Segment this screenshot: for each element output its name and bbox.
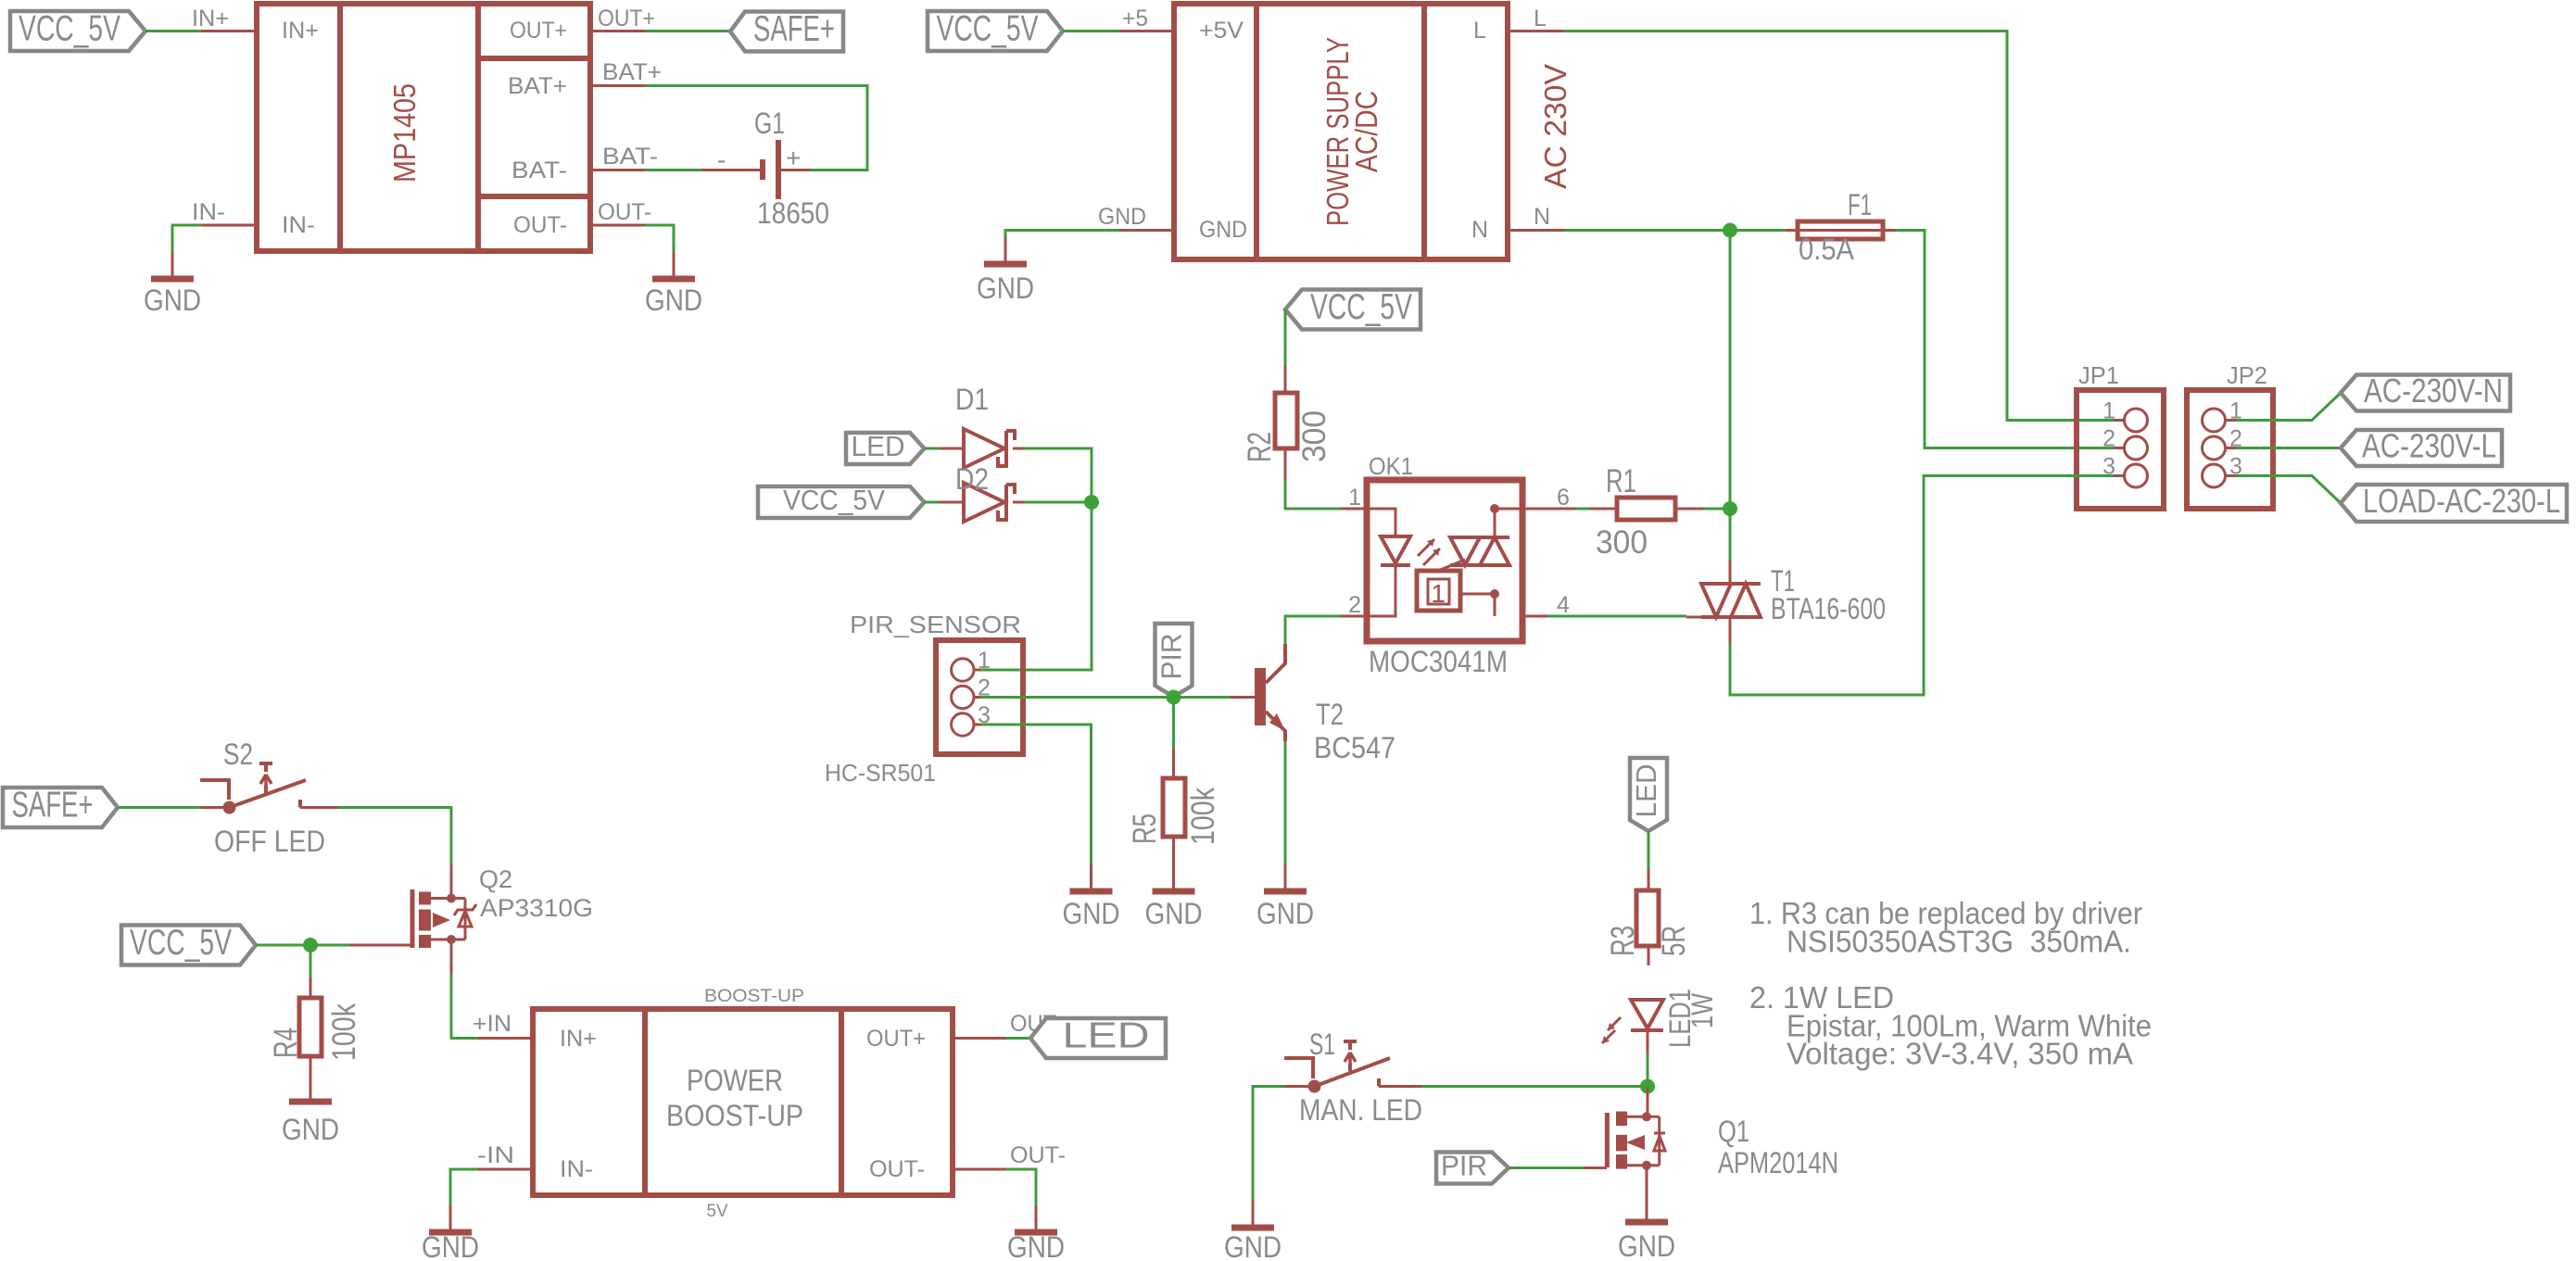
wire junction down to T1 bbox=[1729, 509, 1732, 560]
svg-text:S1: S1 bbox=[1309, 1028, 1335, 1061]
transistor T2 BC547 npn bbox=[1230, 644, 1395, 764]
resistor R4 100k bbox=[268, 978, 362, 1094]
pin IN+ of boost module bbox=[473, 1011, 597, 1052]
svg-text:LED: LED bbox=[1063, 1016, 1150, 1056]
svg-text:2: 2 bbox=[1348, 592, 1361, 618]
svg-text:-IN: -IN bbox=[477, 1142, 514, 1168]
wire PIR_SENSOR pin 2 to PIR node bbox=[980, 696, 1174, 699]
svg-text:AP3310G: AP3310G bbox=[480, 894, 593, 922]
mosfet Q2 AP3310G p-channel bbox=[412, 864, 593, 975]
net flag VCC_5V at Q2 gate bbox=[121, 923, 256, 965]
svg-text:GND: GND bbox=[1098, 204, 1146, 230]
svg-text:-: - bbox=[717, 145, 726, 174]
wire fuse F1 to JP1 pin 2 bbox=[1896, 231, 2114, 448]
ground GND at T2 emitter bbox=[1256, 864, 1314, 930]
svg-text:GND: GND bbox=[1199, 217, 1247, 243]
pin 1 of JP1 bbox=[2102, 398, 2147, 433]
wire VCC_5V flag to junction bbox=[256, 944, 310, 947]
net flag LOAD-AC-230-L bbox=[2341, 482, 2567, 522]
schottky diode D2 bbox=[940, 462, 1024, 522]
wire R1 to junction at triac node bbox=[1703, 508, 1730, 511]
ground GND under R5 bbox=[1145, 864, 1203, 930]
pin 2 of JP1 bbox=[2102, 426, 2147, 460]
wire LED flag to D1 anode bbox=[925, 448, 941, 450]
junction node D1/D2 bbox=[1084, 495, 1099, 510]
switch S2 OFF LED bbox=[200, 738, 339, 858]
svg-text:300: 300 bbox=[1296, 410, 1332, 462]
svg-text:MOC3041M: MOC3041M bbox=[1369, 645, 1508, 678]
svg-text:L: L bbox=[1473, 18, 1486, 44]
fuse F1 0.5A bbox=[1786, 188, 1896, 266]
wire JP2 pin 3 to LOAD-AC-230-L flag bbox=[2236, 476, 2341, 504]
ground GND at Q1 source bbox=[1618, 1195, 1675, 1261]
note text 2 bbox=[1749, 980, 2152, 1071]
svg-text:JP2: JP2 bbox=[2227, 361, 2267, 389]
supply flag VCC_5V above R2 bbox=[1285, 287, 1421, 330]
wire S1 left to ground bbox=[1253, 1087, 1283, 1221]
svg-text:LED: LED bbox=[852, 430, 905, 462]
pin IN- of MP1405 bbox=[192, 199, 315, 238]
svg-text:OUT+: OUT+ bbox=[866, 1026, 926, 1052]
wire OK1 pin 6 to R1 bbox=[1576, 508, 1590, 511]
svg-text:GND: GND bbox=[977, 271, 1034, 305]
svg-text:HC-SR501: HC-SR501 bbox=[825, 759, 936, 787]
net flag LED above R3 bbox=[1630, 758, 1667, 831]
ground GND at S1 bbox=[1224, 1201, 1282, 1261]
wire VCC_5V flag to +5V pin bbox=[1063, 30, 1119, 32]
ground GND at power supply bbox=[977, 237, 1034, 305]
wire boost IN- to ground bbox=[450, 1169, 478, 1225]
svg-text:SAFE+: SAFE+ bbox=[12, 786, 94, 826]
svg-text:OUT-: OUT- bbox=[869, 1156, 925, 1182]
wire junction to Q2 gate bbox=[310, 944, 349, 947]
svg-text:BOOST-UP: BOOST-UP bbox=[666, 1099, 803, 1132]
svg-text:GND: GND bbox=[1618, 1229, 1675, 1261]
svg-text:OUT+: OUT+ bbox=[510, 18, 567, 44]
svg-text:OUT-: OUT- bbox=[513, 212, 567, 238]
svg-text:GND: GND bbox=[1063, 897, 1120, 930]
wire D2 cathode to junction bbox=[1024, 501, 1092, 504]
junction node R1 / T1 MT2 bbox=[1723, 501, 1737, 516]
wire T2 collector to OK1 pin 2 bbox=[1285, 616, 1341, 644]
svg-text:BAT+: BAT+ bbox=[602, 59, 662, 85]
svg-text:GND: GND bbox=[1224, 1230, 1282, 1261]
wire LED flag to R3 bbox=[1648, 831, 1650, 869]
svg-text:IN-: IN- bbox=[192, 199, 225, 225]
svg-text:R4: R4 bbox=[268, 1028, 304, 1058]
pin OUT+ of MP1405 bbox=[510, 6, 655, 44]
wire S1 to junction under LED1 bbox=[1422, 1085, 1648, 1088]
pin BAT+ of MP1405 bbox=[508, 59, 662, 99]
wire L pin to JP1 pin 1 bbox=[1564, 32, 2114, 421]
svg-text:R3: R3 bbox=[1605, 926, 1641, 956]
ground GND at boost IN- bbox=[422, 1205, 479, 1261]
wire IN- to ground bbox=[172, 225, 201, 271]
svg-text:Q2: Q2 bbox=[479, 865, 512, 893]
svg-text:+5: +5 bbox=[1122, 6, 1148, 32]
svg-text:1: 1 bbox=[1348, 485, 1361, 511]
wire junction down to R1 node bbox=[1729, 231, 1732, 510]
svg-text:PIR_SENSOR: PIR_SENSOR bbox=[850, 611, 1021, 638]
svg-text:5V: 5V bbox=[707, 1202, 728, 1221]
wire R2 to OK1 pin 1 bbox=[1285, 480, 1341, 509]
svg-text:IN+: IN+ bbox=[192, 6, 229, 32]
led LED1 1W bbox=[1602, 989, 1719, 1053]
svg-text:BTA16-600: BTA16-600 bbox=[1771, 592, 1886, 625]
svg-text:AC-230V-N: AC-230V-N bbox=[2364, 372, 2503, 410]
wire LED1 cathode to junction bbox=[1647, 1053, 1649, 1086]
svg-text:VCC_5V: VCC_5V bbox=[783, 484, 885, 516]
svg-text:0.5A: 0.5A bbox=[1799, 233, 1855, 266]
note text 1 bbox=[1749, 896, 2142, 959]
wire PIR flag to Q1 gate bbox=[1509, 1166, 1585, 1169]
svg-text:6: 6 bbox=[1557, 485, 1570, 511]
supply flag VCC_5V top-left bbox=[10, 9, 145, 52]
junction node N at fuse input bbox=[1723, 223, 1737, 238]
wire PIR node to T2 base bbox=[1174, 696, 1231, 699]
pin 1 of PIR_SENSOR bbox=[952, 648, 991, 681]
wire BAT+ to battery G1 plus terminal bbox=[645, 86, 867, 170]
svg-text:PIR: PIR bbox=[1155, 634, 1188, 680]
svg-text:LOAD-AC-230-L: LOAD-AC-230-L bbox=[2363, 482, 2560, 520]
svg-text:VCC_5V: VCC_5V bbox=[937, 9, 1039, 49]
pin IN+ of MP1405 bbox=[192, 6, 319, 44]
resistor R5 100k bbox=[1127, 749, 1221, 884]
wire power supply GND pin to ground bbox=[1005, 231, 1119, 258]
svg-text:+5V: +5V bbox=[1199, 18, 1244, 44]
supply flag VCC_5V at power supply input bbox=[928, 9, 1063, 52]
svg-text:GND: GND bbox=[1256, 897, 1314, 930]
schottky diode D1 bbox=[940, 383, 1024, 468]
wire VCC_5V flag to D2 anode bbox=[925, 501, 941, 504]
connector JP1 box bbox=[2077, 361, 2164, 509]
svg-text:VCC_5V: VCC_5V bbox=[19, 9, 120, 49]
wire junction down to PIR_SENSOR pin 1 bbox=[980, 502, 1092, 670]
wire boost OUT- to ground bbox=[1005, 1169, 1036, 1225]
svg-text:BAT-: BAT- bbox=[511, 158, 567, 183]
ground GND at boost OUT- bbox=[1007, 1205, 1065, 1261]
svg-text:+IN: +IN bbox=[473, 1011, 511, 1037]
pin N of power supply bbox=[1471, 204, 1564, 243]
net flag PIR above T2 base bbox=[1155, 624, 1193, 697]
svg-text:300: 300 bbox=[1596, 524, 1648, 561]
svg-text:BC547: BC547 bbox=[1314, 731, 1395, 764]
pin OUT- of boost module bbox=[869, 1142, 1066, 1182]
pin L of power supply bbox=[1473, 6, 1564, 44]
svg-text:AC/DC: AC/DC bbox=[1349, 91, 1383, 172]
svg-text:JP1: JP1 bbox=[2078, 361, 2119, 389]
resistor R3 5R bbox=[1605, 869, 1692, 965]
net flag SAFE+ top bbox=[730, 9, 843, 52]
svg-text:IN+: IN+ bbox=[282, 18, 319, 44]
ground GND under R4 bbox=[282, 1075, 339, 1146]
svg-text:MP1405: MP1405 bbox=[387, 83, 422, 183]
svg-text:OFF LED: OFF LED bbox=[214, 825, 325, 858]
wire OUT+ to SAFE+ flag bbox=[645, 30, 730, 32]
svg-text:5R: 5R bbox=[1656, 926, 1692, 956]
svg-text:AC 230V: AC 230V bbox=[1538, 64, 1572, 189]
svg-text:IN+: IN+ bbox=[560, 1026, 597, 1052]
svg-text:VCC_5V: VCC_5V bbox=[130, 923, 232, 963]
module power boost-up box bbox=[533, 987, 953, 1221]
resistor R1 300 bbox=[1590, 463, 1703, 561]
svg-text:S2: S2 bbox=[223, 738, 253, 771]
wire T1 MT1 to JP1 pin 3 bbox=[1730, 476, 2114, 696]
wire Q2 source to boost module +IN bbox=[451, 974, 478, 1039]
svg-text:OUT-: OUT- bbox=[1010, 1142, 1066, 1168]
svg-text:AC-230V-L: AC-230V-L bbox=[2362, 427, 2496, 465]
wire N pin to junction bbox=[1564, 229, 1730, 232]
ground GND at PIR_SENSOR pin 3 bbox=[1063, 864, 1120, 930]
svg-text:2: 2 bbox=[2102, 426, 2115, 452]
battery G1 18650 bbox=[702, 107, 829, 230]
svg-text:GND: GND bbox=[1007, 1230, 1065, 1261]
svg-text:SAFE+: SAFE+ bbox=[753, 9, 835, 49]
ground GND at MP1405 IN- bbox=[144, 252, 201, 317]
svg-text:T2: T2 bbox=[1316, 698, 1344, 731]
svg-text:D1: D1 bbox=[955, 383, 989, 416]
svg-text:LED: LED bbox=[1630, 764, 1662, 818]
svg-text:G1: G1 bbox=[754, 107, 785, 140]
optocoupler OK1 MOC3041M bbox=[1341, 452, 1576, 678]
svg-text:POWER: POWER bbox=[687, 1064, 783, 1097]
wire SAFE+ flag to S2 bbox=[118, 806, 201, 809]
pin 2 of JP2 bbox=[2203, 426, 2242, 460]
svg-text:OUT+: OUT+ bbox=[598, 6, 655, 32]
svg-text:Voltage: 3V-3.4V, 350 mA: Voltage: 3V-3.4V, 350 mA bbox=[1787, 1037, 2133, 1071]
wire JP2 pin 1 to AC-230V-N flag bbox=[2236, 393, 2341, 421]
svg-text:R5: R5 bbox=[1127, 813, 1163, 844]
wire junction to fuse F1 bbox=[1730, 229, 1786, 232]
svg-text:GND: GND bbox=[282, 1113, 339, 1146]
junction node VCC / R4 / Q2 gate bbox=[303, 938, 318, 952]
svg-text:GND: GND bbox=[144, 284, 201, 317]
wire boost OUT+ to LED flag bbox=[1005, 1037, 1030, 1040]
svg-text:D2: D2 bbox=[955, 462, 989, 496]
svg-text:4: 4 bbox=[1557, 592, 1570, 618]
wire PIR node down to R5 bbox=[1172, 698, 1175, 750]
svg-text:VCC_5V: VCC_5V bbox=[1310, 287, 1412, 327]
svg-text:1: 1 bbox=[1431, 579, 1446, 608]
wire VCC_5V flag down to R2 bbox=[1284, 309, 1287, 366]
svg-text:R1: R1 bbox=[1606, 463, 1636, 499]
ground GND at MP1405 OUT- bbox=[645, 252, 702, 317]
pin +5V of power supply bbox=[1119, 6, 1244, 44]
switch S1 MAN. LED bbox=[1283, 1028, 1422, 1127]
wire OK1 pin 4 to T1 gate bbox=[1548, 615, 1686, 618]
svg-text:100k: 100k bbox=[1185, 788, 1221, 845]
svg-text:GND: GND bbox=[645, 284, 702, 317]
pin 2 of PIR_SENSOR bbox=[952, 675, 991, 709]
wire VCC_5V flag to IN+ bbox=[145, 30, 201, 32]
module U-MP1405 battery charger box bbox=[257, 4, 590, 251]
mosfet Q1 APM2014N n-channel bbox=[1607, 1087, 1838, 1216]
junction node LED1 / S1 / Q1 drain bbox=[1640, 1079, 1655, 1094]
pin OUT+ of boost module bbox=[866, 1011, 1069, 1052]
svg-text:BAT+: BAT+ bbox=[508, 73, 567, 99]
connector JP2 box bbox=[2187, 361, 2273, 509]
svg-text:MAN. LED: MAN. LED bbox=[1299, 1093, 1422, 1127]
pin 3 of JP1 bbox=[2102, 454, 2147, 488]
net flag SAFE+ at S2 bbox=[3, 786, 118, 828]
pin IN- of boost module bbox=[477, 1142, 593, 1182]
net flag VCC_5V at D2 bbox=[758, 484, 925, 518]
pin 3 of JP2 bbox=[2203, 454, 2242, 488]
svg-text:1: 1 bbox=[978, 648, 991, 674]
wire D1 cathode to junction column bbox=[1024, 448, 1092, 502]
svg-text:1W: 1W bbox=[1686, 992, 1719, 1028]
svg-text:N: N bbox=[1534, 204, 1550, 230]
junction node PIR / T2 base / R5 bbox=[1167, 690, 1181, 705]
net flag AC-230V-N bbox=[2341, 372, 2510, 411]
svg-text:F1: F1 bbox=[1848, 188, 1872, 221]
svg-text:OK1: OK1 bbox=[1369, 452, 1413, 480]
net flag AC-230V-L bbox=[2341, 427, 2502, 467]
wire BAT- to battery G1 minus terminal bbox=[645, 169, 702, 171]
net flag LED at boost output bbox=[1030, 1016, 1166, 1059]
pin 1 of JP2 bbox=[2203, 398, 2242, 433]
svg-text:L: L bbox=[1534, 6, 1547, 32]
module power supply AC/DC box bbox=[1174, 4, 1572, 259]
svg-text:PIR: PIR bbox=[1441, 1150, 1487, 1182]
triac T1 BTA16-600 bbox=[1686, 560, 1886, 643]
svg-text:APM2014N: APM2014N bbox=[1718, 1146, 1838, 1179]
svg-text:1: 1 bbox=[2102, 398, 2115, 424]
svg-text:18650: 18650 bbox=[757, 196, 829, 230]
svg-text:R2: R2 bbox=[1242, 432, 1278, 462]
wire junction down to R4 bbox=[309, 945, 312, 978]
pin 3 of PIR_SENSOR bbox=[952, 702, 991, 736]
svg-text:Q1: Q1 bbox=[1718, 1115, 1749, 1148]
svg-text:N: N bbox=[1471, 217, 1488, 243]
svg-text:IN-: IN- bbox=[282, 212, 315, 238]
pin BAT- of MP1405 bbox=[511, 144, 658, 183]
connector PIR_SENSOR HC-SR501 box bbox=[825, 611, 1023, 787]
svg-text:IN-: IN- bbox=[560, 1156, 593, 1182]
svg-text:GND: GND bbox=[1145, 897, 1203, 930]
pin OUT- of MP1405 bbox=[513, 199, 651, 238]
net flag PIR at Q1 gate bbox=[1436, 1150, 1509, 1184]
svg-text:BAT-: BAT- bbox=[602, 144, 658, 170]
resistor R2 300 bbox=[1242, 366, 1332, 480]
pin GND of power supply bbox=[1098, 204, 1247, 243]
svg-text:+: + bbox=[786, 144, 801, 172]
svg-text:GND: GND bbox=[422, 1230, 479, 1261]
wire T2 emitter to ground bbox=[1284, 741, 1287, 884]
wire OUT- to ground bbox=[645, 225, 674, 271]
svg-text:100k: 100k bbox=[326, 1003, 362, 1061]
net flag LED at D1 bbox=[846, 430, 925, 464]
wire S2 to Q2 drain bbox=[339, 808, 451, 864]
svg-text:BOOST-UP: BOOST-UP bbox=[704, 987, 804, 1006]
svg-text:NSI50350AST3G 350mA.: NSI50350AST3G 350mA. bbox=[1787, 925, 2131, 959]
wire PIR_SENSOR pin 3 to ground bbox=[980, 725, 1092, 884]
svg-text:OUT-: OUT- bbox=[598, 199, 651, 225]
wire JP2 pin 2 to AC-230V-L flag bbox=[2236, 447, 2341, 449]
